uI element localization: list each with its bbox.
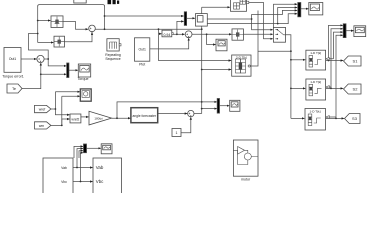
svg-text:1: 1 xyxy=(176,131,178,135)
block icons layer xyxy=(38,0,363,165)
wire mux M3 output to torque scope xyxy=(69,69,78,71)
right load subsystem Vab Vbc xyxy=(93,158,122,196)
wire long vertical theta net xyxy=(201,7,203,113)
svg-text:Out1: Out1 xyxy=(139,47,146,51)
wire sum B output xyxy=(44,58,48,60)
wire stub into table T3 right xyxy=(329,116,336,118)
scope1 screen curve xyxy=(312,7,319,9)
relay R2 xyxy=(54,36,65,47)
svg-text:Sequence: Sequence xyxy=(105,57,120,61)
scope3 block xyxy=(230,100,240,111)
wire into relay R1 xyxy=(38,20,51,22)
mux M6 bar xyxy=(84,144,87,153)
wire into relay R2 xyxy=(38,42,54,44)
gain triangle 180/pi xyxy=(89,111,112,125)
svg-text:0.94: 0.94 xyxy=(163,33,170,37)
wire vertical right of sum A xyxy=(104,6,106,30)
torque scope block xyxy=(78,64,90,77)
wire relay R2 output xyxy=(65,32,93,41)
svg-text:motor: motor xyxy=(241,178,251,182)
wire riser mux M6 input 3 xyxy=(79,151,83,158)
unit delay block xyxy=(196,14,208,27)
wire speed sum box output to gain xyxy=(81,116,89,118)
wire riser mux M6 input 2 xyxy=(77,149,83,168)
left source subsystem Vab Vbc xyxy=(43,158,73,196)
mux M1 bar xyxy=(184,12,186,26)
hysteresis block H1 cropped at top xyxy=(231,0,247,11)
scope4 block xyxy=(101,144,112,154)
constant 1 block xyxy=(172,129,181,137)
wm from tag xyxy=(35,122,51,129)
svg-text:wref: wref xyxy=(39,107,45,111)
wire mux M2 input 2 xyxy=(202,108,217,110)
wire stub into table T2 right xyxy=(329,86,331,88)
wire wref branch to XY scope input 1 xyxy=(55,92,80,109)
wire gain output to angle forecaster xyxy=(112,117,131,119)
wire theta net to mux M4 input 4 xyxy=(202,14,298,24)
wire sum C output to relay R3 xyxy=(192,33,232,35)
lookup table T3 xyxy=(305,109,326,131)
goto tag S1 xyxy=(344,56,362,66)
bold cropped title text at top xyxy=(108,0,120,4)
svg-text:1-D T[k]: 1-D T[k] xyxy=(310,51,321,55)
repeating sequence block xyxy=(107,39,119,51)
sum B circle xyxy=(37,55,44,62)
multiport switch block xyxy=(273,27,285,42)
Te from tag xyxy=(7,84,22,93)
wire mux M4 output to scope1 xyxy=(301,8,309,10)
svg-text:Te: Te xyxy=(12,87,16,91)
wire branch down to mini display xyxy=(207,34,216,44)
wire Vab to right subsystem xyxy=(73,167,93,169)
goto tag S3 xyxy=(345,114,361,124)
relay R3 icon xyxy=(232,30,243,40)
wire Out1 block to sum B xyxy=(21,58,37,60)
wire Te branch to mux M3 input 2 xyxy=(41,73,67,75)
wire into table T1 xyxy=(291,59,305,61)
svg-text:Vbc: Vbc xyxy=(96,179,104,184)
svg-text:Vbc: Vbc xyxy=(61,180,67,184)
svg-text:S1: S1 xyxy=(353,59,359,64)
XY graph screen curve xyxy=(84,92,88,96)
lookup table T2 xyxy=(306,79,326,100)
wire nub output of H1 to switch input 3 xyxy=(249,3,273,39)
mini display screen curve xyxy=(219,43,225,45)
scope4 screen curve xyxy=(104,147,110,149)
wire down to mux M3 input 1 xyxy=(48,59,66,66)
relay R3 xyxy=(232,29,243,40)
wire wm tag routing xyxy=(51,119,70,125)
sum C circle xyxy=(185,31,192,38)
torque scope screen curve xyxy=(81,68,89,71)
svg-text:1-D T[k]: 1-D T[k] xyxy=(310,80,321,84)
wire flux Plot block output to sum C bottom xyxy=(150,38,189,49)
wire vertical to 2-D table input 1 xyxy=(159,29,232,60)
wire mux M6 output to scope4 xyxy=(87,147,101,149)
wire torque error tap branch xyxy=(29,34,49,59)
wire vertical feedback left xyxy=(37,6,39,43)
subsystem Out1 Torque error1 xyxy=(4,48,21,73)
wire into table T2 xyxy=(291,87,305,89)
motor subsystem xyxy=(233,140,258,176)
wire sum D output xyxy=(194,113,202,115)
sum D circle xyxy=(188,110,194,116)
mini display block xyxy=(216,39,227,51)
wire row2 table to goto S2 xyxy=(326,87,344,89)
wire riser mux M6 input 1 xyxy=(74,146,83,158)
angle forecaster block xyxy=(131,108,158,123)
wire delay block output stepped to mux M4 input 3 xyxy=(207,10,297,19)
wire Te tag to sum B bottom xyxy=(22,63,41,89)
wire riser mux M4 input 2 xyxy=(278,8,298,24)
wire forecaster output to sum D xyxy=(158,113,187,115)
sum plus marks xyxy=(90,28,93,33)
svg-text:wref2: wref2 xyxy=(72,117,80,121)
speed sum box xyxy=(70,114,81,123)
wire relay R1 output xyxy=(63,22,88,30)
XY graph block xyxy=(80,89,91,101)
scope2 block xyxy=(354,26,366,37)
wire top feedback horizontal xyxy=(38,5,105,7)
wire row3 table to goto S3 xyxy=(326,117,345,119)
lookup table T1 xyxy=(306,50,326,70)
wire constant 1 to sum D bottom xyxy=(181,117,191,133)
wire into table T3 xyxy=(291,117,305,119)
repeating sequence icon xyxy=(110,42,117,49)
motor subsystem icon xyxy=(233,147,258,165)
wire feedback riser to mux M5 input1 xyxy=(329,25,343,60)
wire feedback riser to mux M5 input2 xyxy=(331,29,343,89)
svg-text:1-D T[k]: 1-D T[k] xyxy=(310,110,321,114)
2-D lookup table icon xyxy=(236,59,251,73)
svg-text:2-D T[k]: 2-D T[k] xyxy=(236,56,247,60)
svg-text:Vab: Vab xyxy=(61,166,67,170)
wire feedback riser to mux M5 input4 xyxy=(336,35,343,118)
lookup table T3 icon xyxy=(308,114,321,126)
gain 0.94 box xyxy=(162,30,172,37)
wire riser mux M4 input 1 xyxy=(274,4,298,27)
mux M2 bar xyxy=(217,99,219,114)
mux M3 bar xyxy=(67,63,69,78)
svg-text:Torque: Torque xyxy=(78,77,89,81)
wire into gain 0.94 box xyxy=(159,33,162,35)
svg-text:wm: wm xyxy=(39,124,44,128)
svg-text:S3: S3 xyxy=(352,116,358,121)
relay R1 xyxy=(51,16,63,28)
blocks layer xyxy=(4,0,366,196)
wire Vbc to right subsystem xyxy=(73,181,93,183)
mux M4 bar xyxy=(298,3,301,17)
wref from tag xyxy=(35,105,51,112)
cropped block at top edge xyxy=(74,0,86,3)
wire riser mux M6 input 4 xyxy=(81,153,84,182)
wire 2-D table input 2 xyxy=(202,69,231,71)
lookup table T2 icon xyxy=(309,84,322,96)
multiport switch icon xyxy=(275,29,285,40)
relay R2 icon xyxy=(54,37,65,47)
wire branch to switch input 1 xyxy=(252,19,273,30)
svg-text:Vab: Vab xyxy=(96,165,104,170)
mux M5 bar xyxy=(343,24,346,38)
wire branch up over forecaster xyxy=(117,102,217,118)
goto tag S2 xyxy=(344,84,362,94)
wire mux M1 input 1 xyxy=(105,15,184,17)
wire branch up to mux M1 input 2 xyxy=(177,21,184,34)
wire sum A output long horizontal xyxy=(95,28,201,30)
scope1 block xyxy=(309,3,323,15)
wire mux M2 output to scope3 xyxy=(220,105,230,107)
wire row1 table to goto S1 xyxy=(326,60,344,62)
svg-text:Out1: Out1 xyxy=(9,57,16,61)
hollow arrowheads into table right sides xyxy=(326,57,329,118)
svg-text:Plot: Plot xyxy=(139,63,145,67)
scope3 screen curve xyxy=(232,104,237,106)
wire wm branch to XY scope input 2 xyxy=(62,96,80,125)
svg-text:Torque error1: Torque error1 xyxy=(2,75,24,79)
wire top into hysteresis block H1 xyxy=(202,6,230,8)
wire gain 0.94 output to flux sum xyxy=(173,33,185,35)
2-D lookup table xyxy=(232,55,251,76)
scope2 screen curve xyxy=(357,29,364,31)
hysteresis H1 icons xyxy=(234,0,246,9)
wire relay R3 output to switch input 2 xyxy=(243,33,272,35)
wire mux M5 output to scope2 xyxy=(346,30,353,32)
relay R1 icon xyxy=(51,17,63,28)
svg-text:S2: S2 xyxy=(353,87,359,92)
svg-text:180/pi: 180/pi xyxy=(94,116,103,120)
wire feedback riser to mux M5 input3 xyxy=(329,32,343,59)
wire mux M1 output xyxy=(187,17,195,19)
flux subsystem Plot block xyxy=(135,38,150,61)
wire wref tag routing xyxy=(51,109,70,115)
svg-text:angle forecaster: angle forecaster xyxy=(132,114,157,118)
wire switch output down right column xyxy=(286,35,291,119)
lookup table T1 icon xyxy=(309,56,322,68)
sum A circle xyxy=(89,25,96,32)
wire 2-D table output route xyxy=(251,11,291,67)
